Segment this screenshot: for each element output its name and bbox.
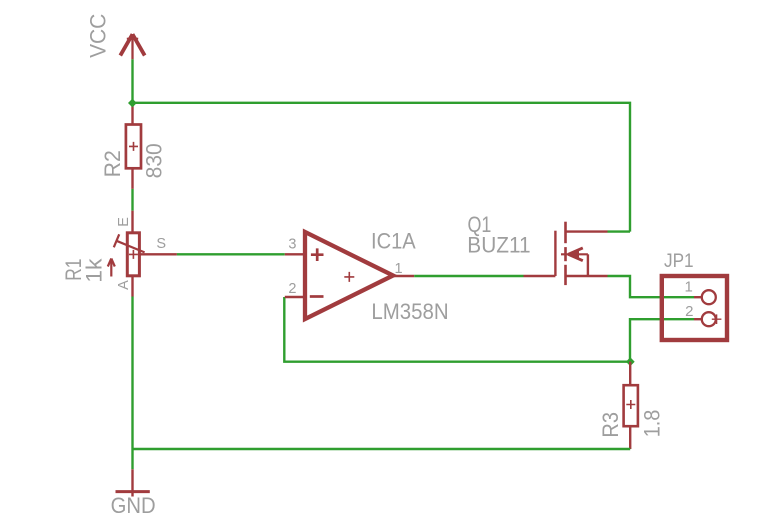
svg-text:IC1A: IC1A xyxy=(371,229,416,254)
op-amp U1 IC1A xyxy=(285,232,414,319)
svg-text:VCC: VCC xyxy=(85,14,110,58)
wire left rail R1 to GND xyxy=(131,297,133,470)
wire op-amp output to Q1 gate xyxy=(414,275,523,277)
svg-text:LM358N: LM358N xyxy=(371,299,448,324)
wire top rail to Q1 drain column xyxy=(133,103,631,232)
svg-text:S: S xyxy=(156,236,166,252)
connector JP1 xyxy=(662,276,727,340)
svg-text:2: 2 xyxy=(685,303,693,320)
svg-text:1: 1 xyxy=(395,261,403,277)
wire R2 to R1 xyxy=(131,189,133,211)
svg-text:830: 830 xyxy=(141,143,166,178)
svg-text:R2: R2 xyxy=(100,150,125,177)
junction feedback node xyxy=(626,357,635,366)
svg-text:JP1: JP1 xyxy=(664,251,694,272)
svg-text:2: 2 xyxy=(288,281,296,297)
junction VCC rail xyxy=(128,99,137,108)
potentiometer R1 xyxy=(108,211,177,297)
wire feedback op-amp pin 2 to junction xyxy=(284,297,630,362)
resistor R2 xyxy=(126,103,141,189)
wire R1 wiper to op-amp pin 3 xyxy=(177,253,285,255)
wire Q1 source to JP1 pin 1 xyxy=(608,276,695,297)
wire Q1 drain to top rail xyxy=(608,230,631,232)
resistor R3 xyxy=(624,362,638,449)
power symbol VCC xyxy=(120,34,144,59)
wire bottom rail R3 to ground column xyxy=(133,448,631,450)
ground xyxy=(116,469,150,496)
svg-text:BUZ11: BUZ11 xyxy=(467,233,530,258)
svg-text:A: A xyxy=(116,280,132,290)
wire VCC to top rail xyxy=(131,59,133,103)
svg-text:1: 1 xyxy=(684,278,692,295)
svg-text:1k: 1k xyxy=(82,258,107,282)
svg-text:GND: GND xyxy=(111,493,156,518)
svg-text:E: E xyxy=(116,217,132,227)
wire JP1 pin 2 to junction xyxy=(630,319,694,362)
svg-text:1.8: 1.8 xyxy=(640,410,665,438)
transistor Q1 xyxy=(524,222,608,285)
svg-text:3: 3 xyxy=(288,237,296,253)
svg-text:R3: R3 xyxy=(598,412,623,438)
